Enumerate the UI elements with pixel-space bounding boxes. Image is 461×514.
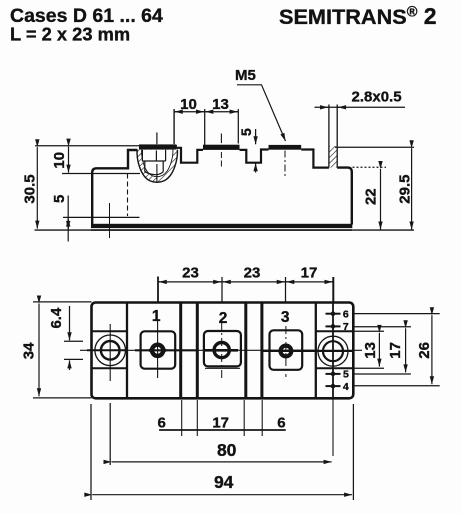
flange top line <box>91 216 140 218</box>
aux pins <box>326 311 341 388</box>
svg-text:6: 6 <box>158 414 166 431</box>
svg-text:M5: M5 <box>235 67 256 84</box>
svg-text:23: 23 <box>244 265 261 282</box>
baseplate <box>91 224 352 228</box>
terminal 3 cap (side view) <box>269 145 302 150</box>
dim 2.8x0.5 <box>315 106 406 108</box>
left slot lines <box>92 330 128 332</box>
svg-text:6.4: 6.4 <box>48 307 65 329</box>
svg-text:23: 23 <box>182 265 199 282</box>
main horizontal centerline <box>80 349 362 352</box>
ext line bottom-left (30.5 bottom ref) <box>35 229 92 231</box>
svg-text:3: 3 <box>281 309 290 326</box>
svg-text:5: 5 <box>51 195 68 203</box>
svg-text:SEMITRANS® 2: SEMITRANS® 2 <box>279 3 437 29</box>
ext line bottom-right <box>352 229 414 231</box>
svg-text:10: 10 <box>51 152 68 169</box>
ext line top-left (30.5 / 10 top ref) <box>35 145 150 147</box>
svg-text:2: 2 <box>219 310 228 327</box>
svg-text:6: 6 <box>277 414 285 431</box>
hole centerline side <box>109 203 111 238</box>
svg-text:94: 94 <box>214 472 234 492</box>
dim 94 <box>91 404 353 500</box>
dome hatched band <box>137 150 177 183</box>
terminal 2 pad <box>204 331 241 366</box>
section gap walls <box>179 302 182 398</box>
svg-text:5: 5 <box>343 369 349 381</box>
dim 30.5 <box>36 147 38 228</box>
dim 17 <box>405 328 407 372</box>
svg-text:17: 17 <box>387 342 404 359</box>
dim 80 <box>110 403 331 465</box>
dim 6.4 <box>64 306 83 370</box>
dim 26 <box>431 315 433 384</box>
left body edge + ledge <box>92 150 137 225</box>
dim 34 left <box>33 302 92 398</box>
profile from dome to right edge <box>176 145 203 163</box>
dim 13 <box>378 333 380 367</box>
svg-text:L = 2 x 23 mm: L = 2 x 23 mm <box>10 24 130 45</box>
ext line flange (5 top ref) <box>63 216 91 218</box>
svg-text:22: 22 <box>362 188 379 205</box>
dim 5 notch <box>255 129 257 173</box>
svg-text:10: 10 <box>180 96 197 113</box>
ext pin5 <box>355 373 411 375</box>
t2 centerline <box>220 134 222 144</box>
ext pin7 <box>355 326 411 328</box>
svg-text:29.5: 29.5 <box>396 174 413 203</box>
dome outer edge <box>137 150 177 183</box>
terminal 1 dome (side view) <box>137 132 177 182</box>
hidden dashed edge <box>127 174 129 217</box>
left mounting hole <box>95 324 126 381</box>
right slot lines <box>316 330 354 332</box>
dim 10/13 top <box>174 109 238 147</box>
dims 13/17/26 right side <box>355 314 440 386</box>
t3 centerline <box>284 151 286 179</box>
svg-text:34: 34 <box>21 342 38 359</box>
svg-text:13: 13 <box>212 96 229 113</box>
tab terminal 2.8x0.5 <box>329 105 337 168</box>
module body outline side view <box>91 145 352 238</box>
svg-text:30.5: 30.5 <box>21 174 38 203</box>
terminal 1 ring <box>152 345 163 356</box>
terminal 2 ring <box>214 343 229 358</box>
svg-text:1: 1 <box>152 308 161 325</box>
cap bar <box>139 144 176 149</box>
centerline t1 <box>156 132 158 144</box>
dim 10 <box>68 147 70 173</box>
svg-text:80: 80 <box>217 440 237 460</box>
dim 5 left <box>67 196 69 242</box>
terminal 3 ring <box>281 346 292 357</box>
dome inner edge <box>142 150 173 177</box>
svg-text:17: 17 <box>212 414 229 431</box>
ext line mid-left (10 bottom ref) <box>62 173 140 175</box>
right ext + dims 22 / 29.5 <box>335 147 414 229</box>
dims 23/23/17 top <box>158 277 333 302</box>
svg-text:5: 5 <box>238 128 254 136</box>
terminal 2 cap (side view) <box>203 145 240 150</box>
ext pin4 <box>355 385 440 387</box>
pins column line <box>332 302 334 398</box>
svg-text:13: 13 <box>362 342 379 359</box>
nut edges <box>142 150 165 175</box>
svg-text:7: 7 <box>343 321 349 333</box>
terminal 3 pad <box>270 330 303 370</box>
svg-text:2.8x0.5: 2.8x0.5 <box>352 89 402 106</box>
module outline <box>92 303 354 399</box>
terminal 1 pad <box>141 331 176 368</box>
svg-text:26: 26 <box>416 342 433 359</box>
ext slot top <box>355 330 385 332</box>
ext pin6 <box>355 313 440 315</box>
svg-text:4: 4 <box>343 381 349 393</box>
svg-text:6: 6 <box>343 308 349 320</box>
ext slot bottom <box>355 367 385 369</box>
svg-text:17: 17 <box>301 265 318 282</box>
dims 6/17/6 bottom <box>159 400 286 436</box>
right mounting hole <box>318 336 348 366</box>
